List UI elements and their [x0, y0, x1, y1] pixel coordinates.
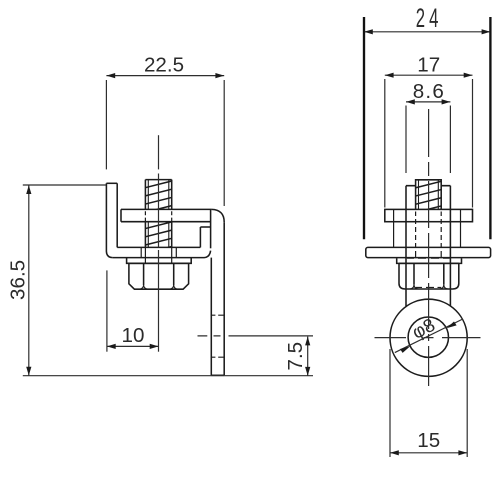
left view: washer: [127, 258, 192, 263]
arrow 8.6 left: [406, 99, 415, 104]
dim 17 dimension line: [385, 74, 473, 76]
left view: part A leg inner edge upper: [210, 209, 212, 248]
bolt center line through stud and plate band: [158, 174, 160, 248]
right view: nut facet bottom arcs: [410, 285, 449, 289]
arrow 17 right: [464, 73, 473, 78]
svg-text:7.5: 7.5: [284, 342, 307, 371]
arrow 15 right: [458, 450, 467, 455]
left view: stud thread hatch upper: [144, 181, 173, 213]
right view: threaded stud: [416, 180, 442, 210]
arrow 15 left: [390, 450, 399, 455]
left view: part A top plate top edge: [121, 208, 212, 210]
arrow 7.5 bottom: [305, 367, 310, 376]
left view: part A top plate left cap: [120, 209, 122, 221]
left view: part A corner outer radius: [212, 209, 225, 222]
left view: stud right side lower: [171, 222, 173, 248]
svg-text:36.5: 36.5: [6, 260, 29, 300]
left view: leg hole hidden line top: [211, 314, 224, 316]
right view: neck shoulders: [406, 185, 450, 187]
bolt center line upper segment: [158, 135, 160, 169]
left view: stud thread minor diameter lines: [148, 180, 169, 248]
left view: nut outline: [129, 263, 189, 289]
right view: stud thread hatch: [414, 181, 443, 213]
dim 7.5 dimension line: [307, 337, 309, 376]
right view: washer step: [397, 258, 462, 263]
dim 22.5 dimension line: [106, 75, 224, 77]
bottom extension line shared by 36.5 and 7.5: [23, 375, 313, 377]
left view: part A leg outer edge: [223, 222, 225, 375]
left view: stud right side upper: [171, 180, 173, 210]
right view: stud thread minor diameter lines: [419, 180, 439, 210]
right view vertical center line dashes: [428, 109, 430, 386]
dim 36.5 dimension line: [28, 185, 30, 375]
arrow phi8 upper-right (tip on hole edge): [446, 322, 456, 329]
arrow 24 right: [482, 29, 491, 34]
dim 10 dimension line: [107, 345, 159, 347]
right view: ring outer circle: [390, 299, 467, 376]
bold extension lines of dim 24: [364, 17, 490, 239]
right view: neck left side: [405, 186, 407, 307]
arrow 7.5 top: [305, 337, 310, 346]
arrow 17 left: [385, 73, 394, 78]
leg hole center line: [198, 335, 314, 337]
left view: part A top plate bottom edge: [121, 221, 211, 223]
left view: part B vertical plate inner edge: [116, 183, 118, 247]
dimension texts: [6, 3, 445, 452]
dim 10 left extension line: [106, 270, 108, 351]
dim 8.6 extension lines: [406, 106, 450, 174]
left view: stud hidden sides through plate (dashes): [145, 211, 171, 221]
left view: flange top edge: [117, 246, 200, 248]
right view: hidden stud end: [416, 286, 442, 288]
dim 24 right bold extension: [489, 17, 491, 239]
ring horizontal center line dashes: [375, 337, 481, 339]
svg-text:4: 4: [429, 3, 438, 33]
right view: inner verticals beside plate: [394, 209, 461, 247]
svg-text:15: 15: [417, 429, 440, 452]
left view: part A leg bottom cap: [211, 374, 224, 376]
arrow 22.5 right: [215, 73, 224, 78]
dim 22.5 left extension line: [105, 80, 107, 169]
right view: stud hidden dashed sides below plate: [416, 212, 442, 258]
left view: part B vertical plate top cap: [106, 182, 117, 184]
left view: flange upturned lip left edge: [199, 227, 201, 247]
left view: leg hole hidden line bottom: [211, 356, 224, 358]
right view: nut outline: [399, 263, 459, 289]
svg-text:8.6: 8.6: [413, 80, 445, 103]
thin lines: extension, dimension and center lines: [23, 32, 491, 457]
dim 22.5 right extension line: [223, 80, 225, 206]
right view: nut facet lines: [414, 263, 444, 284]
arrowheads: [26, 29, 490, 455]
svg-text:2: 2: [416, 3, 425, 33]
dim 36.5 top extension line: [23, 184, 106, 186]
arrow 8.6 right: [442, 99, 451, 104]
phi8 leader line: [395, 319, 463, 353]
dim 15 dimension line: [390, 452, 467, 454]
dim 17 extension lines: [385, 79, 473, 208]
left view: part B vertical plate outer edge with bend into flange: [106, 183, 112, 257]
dim 24 dimension line: [364, 31, 490, 33]
left view: stud thread hatch lower: [144, 222, 173, 254]
left view: stud left side upper: [144, 180, 146, 210]
arrow 10 right: [150, 344, 159, 349]
left view: flange hole edges: [141, 248, 176, 258]
left view: stud top cap: [145, 179, 171, 181]
right view: neck right side: [449, 186, 451, 307]
right view: hidden hole line in 24 plate: [407, 257, 450, 259]
left view: part A leg inner edge lower: [210, 258, 212, 376]
left view: flange upturned lip top: [200, 226, 210, 228]
left view: nut facet bottom arcs: [139, 285, 178, 289]
arrow 22.5 left: [106, 73, 115, 78]
left view: stud left side lower: [144, 222, 146, 248]
right view: ring inner circle (hole phi 8): [408, 317, 448, 357]
arrow 36.5 bottom: [26, 367, 31, 376]
arrow 36.5 top: [26, 185, 31, 194]
dim 15 extension lines: [390, 349, 467, 457]
bolt center line lower / dim 10 right extension: [158, 250, 160, 352]
arrow 24 left: [364, 29, 373, 34]
right view: 24 wide base plate: [366, 247, 491, 257]
svg-text:10: 10: [122, 324, 145, 347]
arrow phi8 lower-left (tip on hole edge): [400, 346, 410, 353]
left view: stud hidden sides through flange and washer: [145, 248, 171, 263]
left view: nut facet lines: [144, 263, 174, 285]
dim 24 left bold extension: [363, 17, 365, 239]
dim 8.6 dimension line: [406, 101, 450, 103]
arrow 10 left: [107, 344, 116, 349]
svg-text:22.5: 22.5: [144, 53, 184, 76]
right view: 17 wide clamp plate: [385, 209, 473, 221]
left view: flange bottom edge with rounded right end: [113, 251, 211, 258]
svg-text:17: 17: [417, 54, 440, 77]
